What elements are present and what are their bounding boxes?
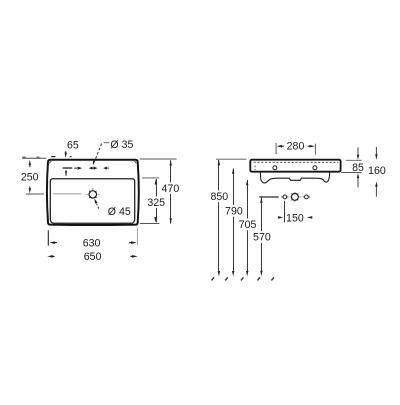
dim 650 left arrow <box>47 255 53 258</box>
dim 85 bottom extension <box>341 172 362 174</box>
basin inner bowl <box>50 179 134 224</box>
dim 325 line <box>156 179 158 222</box>
svg-text:570: 570 <box>253 232 271 244</box>
drain top tick <box>92 189 94 190</box>
svg-text:790: 790 <box>225 206 243 218</box>
tap hole T-mark tick arrow <box>65 170 67 176</box>
wall top extension line <box>216 158 246 160</box>
dim 250 down arrow <box>29 188 31 193</box>
tap hole center tick <box>92 161 94 165</box>
corner mark top-right <box>134 162 136 164</box>
drain diagonal ticks <box>89 191 91 193</box>
dim 150 right arrow <box>307 216 312 219</box>
dim 160 down arrow <box>375 154 377 159</box>
dim 250 top extension <box>22 157 46 159</box>
dim 280 right arrow <box>310 145 315 148</box>
svg-text:Ø 45: Ø 45 <box>108 206 131 218</box>
mounting hole left <box>273 166 277 170</box>
label 570 <box>252 231 272 243</box>
dim 280 left arrow <box>277 145 282 148</box>
dim 65 down arrow <box>65 153 67 158</box>
svg-text:85: 85 <box>352 162 364 174</box>
hidden dashed tick <box>254 166 256 170</box>
drain leader arrow <box>97 204 99 209</box>
drain symbol circle <box>89 191 96 198</box>
dim 250 up arrow <box>29 160 31 165</box>
dim 570 line <box>261 198 263 271</box>
label 850 <box>209 190 229 202</box>
dim 85 top extension <box>346 159 362 161</box>
tap hole double-arrow glyph <box>91 167 96 169</box>
floor hatch marks <box>212 277 215 280</box>
tap hole T-mark line <box>63 167 73 169</box>
svg-text:470: 470 <box>162 183 180 195</box>
drain centerline dashes <box>86 193 89 195</box>
corner mark top-left <box>50 162 52 164</box>
svg-text:65: 65 <box>67 139 79 151</box>
dim 630 right extension <box>136 228 138 245</box>
dim 325 top extension <box>142 177 159 179</box>
label 325 <box>147 196 166 208</box>
dim 630 left arrow <box>49 241 55 244</box>
dim 325 arrows <box>155 179 157 185</box>
svg-text:650: 650 <box>84 251 102 263</box>
tap hole row line <box>259 196 279 198</box>
dim 325 bottom extension <box>140 223 160 225</box>
svg-text:630: 630 <box>83 237 101 249</box>
dim 470 line <box>170 160 172 223</box>
dim 470 arrows <box>170 160 172 166</box>
dim 160 up arrow <box>375 181 377 186</box>
dim 850 line <box>218 160 220 271</box>
leader horizontal dash <box>104 142 110 144</box>
dim 630 right arrow <box>131 241 137 244</box>
dim 85 down arrow <box>357 155 359 160</box>
tap hole left-arrow glyph <box>103 167 107 170</box>
svg-text:250: 250 <box>21 172 39 184</box>
dim 65 dash right <box>70 156 72 158</box>
tap hole small circle left <box>283 195 287 199</box>
tap hole main circle <box>292 194 299 201</box>
label 705 <box>238 219 258 231</box>
leader dashed line to tap hole <box>94 144 102 164</box>
dim 470 top extension <box>140 158 177 160</box>
side slab outline <box>250 160 340 172</box>
dim 280 left extension <box>275 143 277 154</box>
mounting hole right <box>313 166 317 170</box>
dim 790 line <box>233 169 235 272</box>
svg-text:705: 705 <box>239 219 257 231</box>
svg-text:150: 150 <box>286 212 304 224</box>
dim 85 up arrow <box>357 173 359 178</box>
centerline gray inside basin <box>53 193 82 195</box>
dim 705 line <box>247 180 249 271</box>
dim 65 dash <box>51 156 55 158</box>
dim 650 right arrow <box>132 255 138 258</box>
svg-text:Ø 35: Ø 35 <box>110 139 133 151</box>
dim 65 line left <box>22 156 25 158</box>
dim 150 extension <box>284 201 286 223</box>
label 790 <box>224 205 244 217</box>
basin outer outline <box>47 160 139 225</box>
tap hole small circle right <box>305 195 309 199</box>
dim 280 right extension <box>314 144 316 155</box>
svg-text:850: 850 <box>210 191 228 203</box>
centerline gray left <box>26 193 44 195</box>
dim 630 left extension <box>47 230 49 245</box>
svg-text:280: 280 <box>287 141 305 153</box>
svg-text:160: 160 <box>368 165 386 177</box>
dim 150 left arrow <box>278 216 283 219</box>
label 470 <box>161 182 180 194</box>
svg-text:325: 325 <box>147 197 165 209</box>
tap hole right-arrow glyph <box>74 167 77 169</box>
hidden dashed line <box>254 161 339 163</box>
basin underside profile <box>260 173 329 183</box>
